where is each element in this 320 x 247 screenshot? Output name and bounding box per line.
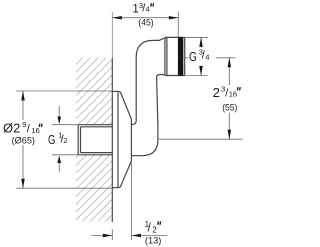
thread black band [178, 37, 183, 75]
svg-text:G: G [189, 49, 197, 64]
escutcheon flange (side view) [112, 91, 118, 187]
svg-text:2: 2 [152, 225, 157, 234]
svg-text:(13): (13) [145, 236, 161, 246]
svg-text:(55): (55) [222, 102, 237, 112]
dimension Ø2 9/16" (Ø65) escutcheon diameter [3, 91, 112, 188]
svg-text:4: 4 [146, 5, 150, 14]
dimension 1 3/4" (45) top [112, 1, 178, 37]
wall section hatching [74, 55, 114, 225]
dimension 2 3/16" (55) right [158, 58, 243, 139]
cone transition to boss [119, 91, 132, 187]
G1/2 socket in wall [78, 125, 112, 155]
svg-text:2: 2 [213, 85, 220, 100]
svg-text:G: G [48, 132, 55, 147]
svg-text:16: 16 [31, 126, 39, 135]
wall face line / extension line [111, 12, 113, 222]
svg-text:Ø2: Ø2 [3, 121, 20, 136]
union nut collar G3/4 outlet [165, 37, 185, 75]
S-shaped pipe body [131, 38, 164, 156]
dimension 1/2" (13) bottom [91, 161, 167, 246]
svg-text:16: 16 [229, 90, 237, 99]
svg-text:(45): (45) [138, 18, 153, 28]
svg-text:2: 2 [63, 136, 67, 145]
dimension G 3/4 thread diameter [184, 37, 210, 75]
svg-text:4: 4 [205, 53, 209, 62]
svg-text:(Ø65): (Ø65) [12, 135, 35, 145]
dimension G 1/2 inlet thread [48, 106, 78, 172]
